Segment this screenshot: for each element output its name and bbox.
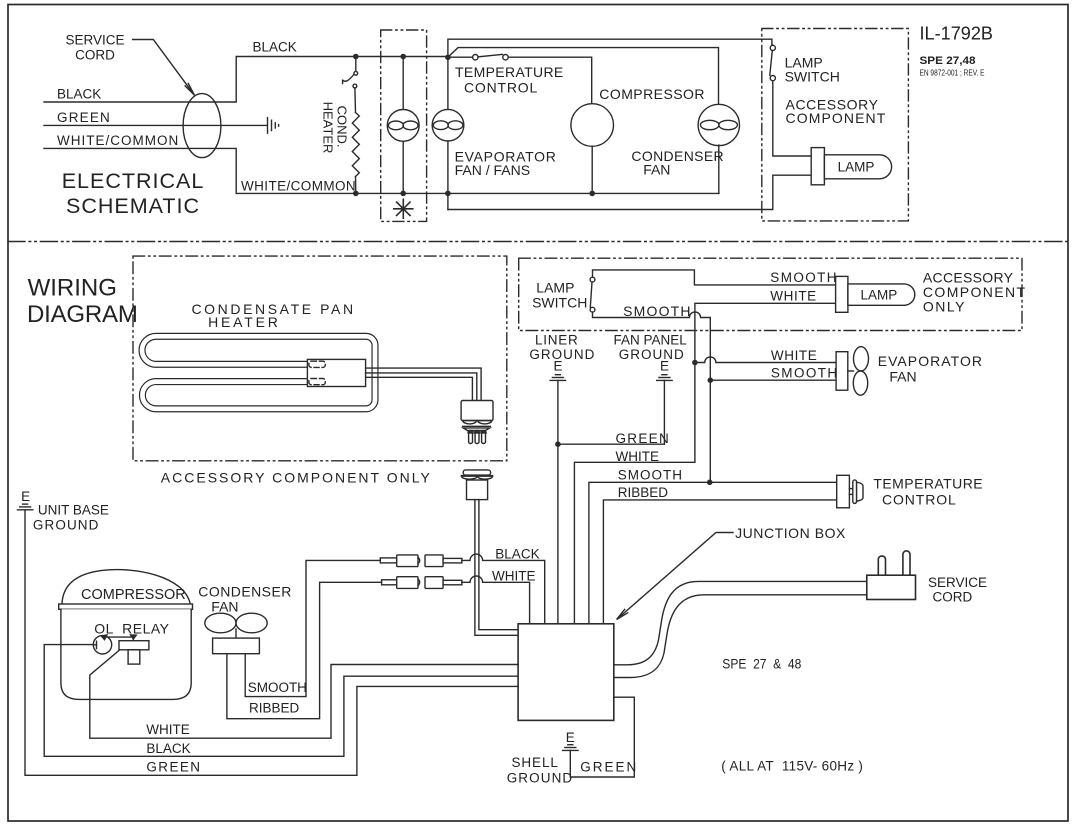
label SMOOTH (condenser lead) xyxy=(248,680,307,695)
svg-text:WHITE: WHITE xyxy=(492,569,536,584)
svg-text:GROUND: GROUND xyxy=(507,771,574,786)
svg-text:SMOOTH: SMOOTH xyxy=(248,680,307,695)
service cord grommet ellipse xyxy=(183,94,221,158)
overload protector OL xyxy=(93,636,111,654)
heater terminal dashed lugs xyxy=(309,361,325,385)
wire fan panel ground drop xyxy=(663,380,665,444)
wire heater cable (female connector to junction box) xyxy=(475,500,518,636)
svg-text:SERVICE: SERVICE xyxy=(928,575,987,590)
condenser fan (wiring) propeller xyxy=(205,613,267,638)
lamp switch (schematic) xyxy=(770,44,776,81)
svg-text:E: E xyxy=(21,489,30,504)
svg-text:WHITE: WHITE xyxy=(770,288,817,303)
service cord (wiring, curved pair) xyxy=(614,581,866,677)
wire shell ground (junction box to ground) xyxy=(570,697,634,777)
label RIBBED (condenser lead) xyxy=(249,701,300,716)
condensate pan heater element (serpentine tube) xyxy=(142,336,375,409)
svg-text:ACCESSORY COMPONENT ONLY: ACCESSORY COMPONENT ONLY xyxy=(161,470,432,486)
lamp (schematic) xyxy=(811,148,891,185)
svg-text:JUNCTION BOX: JUNCTION BOX xyxy=(735,525,846,541)
wire GREEN (left lead) xyxy=(44,124,267,126)
wire heater 3-conductor cable to plug xyxy=(366,368,482,400)
node: optional fan tap on BLACK wire xyxy=(401,54,405,58)
svg-text:ONLY: ONLY xyxy=(923,299,966,315)
label SMOOTH (lamp lead) xyxy=(770,270,838,285)
wire WHITE (relay to junction box) xyxy=(90,650,518,738)
svg-text:TEMPERATURE: TEMPERATURE xyxy=(455,64,564,80)
svg-text:E: E xyxy=(660,359,669,374)
wire WHITE/COMMON (left lead) xyxy=(44,148,719,193)
svg-text:GROUND: GROUND xyxy=(619,347,685,362)
svg-text:SHELL: SHELL xyxy=(512,755,559,770)
svg-text:SERVICE: SERVICE xyxy=(65,33,124,48)
asterisk footnote symbol xyxy=(394,199,413,218)
svg-text:WHITE/COMMON: WHITE/COMMON xyxy=(57,133,179,148)
svg-text:COND.: COND. xyxy=(335,106,350,148)
ground symbol unit base xyxy=(17,504,32,510)
svg-text:WHITE: WHITE xyxy=(771,348,818,363)
relay xyxy=(119,641,149,664)
svg-text:RIBBED: RIBBED xyxy=(249,701,300,716)
svg-text:WHITE: WHITE xyxy=(146,722,190,737)
svg-text:E: E xyxy=(553,359,562,374)
heater male plug xyxy=(461,401,493,444)
node: evaporator fan bottom junction xyxy=(446,191,450,195)
svg-text:GREEN: GREEN xyxy=(580,760,638,775)
label CONDENSATE PAN HEATER xyxy=(191,301,355,330)
svg-text:LINER: LINER xyxy=(535,333,579,348)
label SPE 27 & 48 xyxy=(722,657,801,672)
temperature control switch xyxy=(450,54,508,60)
svg-text:SWITCH: SWITCH xyxy=(785,69,840,85)
svg-text:CORD: CORD xyxy=(933,590,973,605)
svg-text:GREEN: GREEN xyxy=(57,110,111,125)
wire condenser fan to common xyxy=(718,145,720,193)
node: liner ground / green tee xyxy=(556,442,560,446)
svg-text:FAN / FANS: FAN / FANS xyxy=(455,162,530,178)
compressor motor symbol xyxy=(571,104,614,147)
condensate pan heater dash-dot box xyxy=(133,256,507,461)
label WIRING DIAGRAM xyxy=(27,275,138,329)
section divider dash-dot line xyxy=(8,241,1068,243)
wire condenser ribbed lead to terminal (hop to junction box) xyxy=(227,576,530,719)
svg-text:HEATER: HEATER xyxy=(208,314,281,330)
wire compressor branch xyxy=(508,57,592,103)
label WHITE (lamp lead) xyxy=(770,288,817,303)
svg-text:FAN PANEL: FAN PANEL xyxy=(614,333,688,348)
svg-text:GREEN: GREEN xyxy=(146,760,201,775)
svg-text:RIBBED: RIBBED xyxy=(618,485,669,500)
wire BLACK (left lead) xyxy=(44,57,448,103)
wire lamp white return (lamp to junction box) xyxy=(574,303,835,624)
svg-text:IL-1792B: IL-1792B xyxy=(920,23,994,44)
svg-text:CONDENSER: CONDENSER xyxy=(198,584,292,600)
svg-text:COMPRESSOR: COMPRESSOR xyxy=(599,86,705,102)
label LAMP SWITCH (wiring) xyxy=(532,280,587,311)
svg-text:CONTROL: CONTROL xyxy=(882,492,957,508)
svg-text:SMOOTH: SMOOTH xyxy=(623,303,692,319)
ground symbol fan panel xyxy=(657,375,672,381)
cond heater thermal cutout switch xyxy=(343,57,358,88)
wire lamp switch to lamp xyxy=(773,81,811,156)
wire GREEN (unit base ground to junction box) xyxy=(25,510,518,776)
label IL-1792B xyxy=(920,23,994,44)
svg-text:SPE 27,48: SPE 27,48 xyxy=(920,55,976,67)
condenser fan motor symbol xyxy=(698,104,739,145)
svg-text:SWITCH: SWITCH xyxy=(532,295,587,311)
svg-text:LAMP: LAMP xyxy=(861,288,898,303)
label LINER GROUND E xyxy=(529,333,595,374)
svg-text:GREEN: GREEN xyxy=(616,431,671,446)
wire condenser smooth lead to terminal (hop to junction box) xyxy=(245,554,545,696)
label BLACK (top wire) xyxy=(253,40,297,55)
wire evaporator fan smooth lead xyxy=(710,379,836,381)
wire RIBBED bus (junction box riser to temperature control) xyxy=(603,500,836,624)
svg-text:WHITE/COMMON: WHITE/COMMON xyxy=(241,179,356,194)
svg-text:FAN: FAN xyxy=(889,369,916,385)
svg-text:CONTROL: CONTROL xyxy=(464,80,538,96)
svg-text:COMPONENT: COMPONENT xyxy=(786,110,887,126)
node: cond heater bottom junction xyxy=(354,191,358,195)
heater female connector xyxy=(461,470,492,500)
wire optional fan branch xyxy=(402,57,404,194)
svg-text:TEMPERATURE: TEMPERATURE xyxy=(873,476,983,492)
label ( ALL AT 115V- 60Hz ) xyxy=(721,759,863,774)
node: BLACK feed junction xyxy=(446,55,450,59)
node: smooth bus tee xyxy=(708,480,712,484)
label JUNCTION BOX with leader arrow xyxy=(617,525,846,620)
compressor (wiring) shell xyxy=(59,570,193,700)
ground symbol shell xyxy=(563,745,578,751)
svg-text:WHITE: WHITE xyxy=(616,449,660,464)
wire compressor to common xyxy=(591,146,593,193)
node: optional fan bottom junction xyxy=(401,191,405,195)
label SPE 27,48 xyxy=(920,55,976,67)
node: cond heater tap on BLACK wire xyxy=(354,54,358,58)
evaporator fan (wiring) xyxy=(836,347,868,396)
resistor COND. HEATER xyxy=(352,88,359,193)
label FAN PANEL GROUND E xyxy=(614,333,688,374)
svg-text:LAMP: LAMP xyxy=(838,160,875,175)
temperature control (wiring) xyxy=(837,475,863,508)
condenser fan motor block xyxy=(213,638,260,654)
label WHITE/COMMON (bottom wire) xyxy=(241,179,356,194)
svg-text:ELECTRICAL: ELECTRICAL xyxy=(62,169,205,193)
svg-text:EVAPORATOR: EVAPORATOR xyxy=(878,353,983,369)
wire condenser-fan rail (diagonal riser) xyxy=(448,48,719,104)
svg-text:SMOOTH: SMOOTH xyxy=(771,366,839,381)
label OL RELAY xyxy=(94,621,169,637)
svg-text:BLACK: BLACK xyxy=(495,547,539,562)
quick-connect terminals pair WHITE row xyxy=(382,577,462,589)
svg-text:( ALL AT 115V- 60Hz ): ( ALL AT 115V- 60Hz ) xyxy=(721,759,863,774)
lamp switch (wiring) xyxy=(590,277,595,312)
svg-text:SMOOTH: SMOOTH xyxy=(618,467,683,482)
node: compressor bottom junction xyxy=(590,191,594,195)
svg-text:E: E xyxy=(566,730,575,745)
svg-text:SPE 27 & 48: SPE 27 & 48 xyxy=(722,657,801,672)
svg-text:WIRING: WIRING xyxy=(28,275,117,302)
svg-text:BLACK: BLACK xyxy=(253,40,297,55)
service cord plug xyxy=(867,551,916,600)
optional evaporator fan motor symbol xyxy=(387,110,419,142)
accessory component only dash-dot box (lamp circuit) xyxy=(519,258,1022,330)
label ACCESSORY COMPONENT ONLY (pan heater) xyxy=(161,470,432,486)
ground symbol liner xyxy=(550,375,565,381)
wire liner ground to junction box xyxy=(557,380,559,623)
wire SMOOTH bus (junction box riser to temperature control) xyxy=(589,482,837,624)
svg-text:HEATER: HEATER xyxy=(321,102,336,154)
wire main circuit loop (top rail, left rail, bottom rail) xyxy=(448,39,811,209)
label SERVICE CORD with leader arrow xyxy=(65,33,194,96)
wire GREEN (grounds to junction box) xyxy=(558,443,665,445)
wire WHITE bus label xyxy=(616,449,660,464)
heater terminal block xyxy=(307,359,365,386)
label E UNIT BASE GROUND xyxy=(21,489,109,533)
label EN 9872-001 ; REV. E xyxy=(920,68,985,78)
svg-text:LAMP: LAMP xyxy=(536,280,574,296)
svg-text:BLACK: BLACK xyxy=(146,741,190,756)
evaporator fan motor symbol xyxy=(432,109,464,141)
node: smooth wire to evaporator fan tap xyxy=(708,378,712,382)
svg-text:CORD: CORD xyxy=(75,48,115,63)
wire evaporator fan white lead (hop) xyxy=(695,357,836,363)
svg-text:FAN: FAN xyxy=(643,162,670,178)
svg-text:GROUND: GROUND xyxy=(33,517,100,532)
optional evaporator fan dash-dot box xyxy=(381,30,427,221)
label SHELL GROUND xyxy=(507,755,574,786)
wire BLACK (OL to junction box) xyxy=(44,645,518,757)
label GREEN (shell ground wire) xyxy=(580,760,638,775)
svg-text:FAN: FAN xyxy=(211,599,238,615)
lamp (wiring) xyxy=(836,276,915,312)
svg-text:OL RELAY: OL RELAY xyxy=(94,621,169,637)
svg-text:SMOOTH: SMOOTH xyxy=(770,270,838,285)
node: white wire to evaporator fan tap xyxy=(693,360,697,364)
label ACCESSORY COMPONENT ONLY (lamp) xyxy=(923,270,1027,315)
svg-text:EN 9872-001 ; REV. E: EN 9872-001 ; REV. E xyxy=(920,68,985,78)
label COND. HEATER (rotated) xyxy=(321,102,350,154)
label ELECTRICAL SCHEMATIC xyxy=(62,169,205,218)
svg-text:SCHEMATIC: SCHEMATIC xyxy=(66,194,200,218)
svg-text:COMPRESSOR: COMPRESSOR xyxy=(81,587,186,603)
quick-connect terminals pair BLACK row xyxy=(380,555,462,567)
OL to relay link xyxy=(101,635,136,641)
accessory component dash-dot box (schematic) xyxy=(762,29,909,221)
svg-text:DIAGRAM: DIAGRAM xyxy=(27,301,138,328)
junction box xyxy=(518,624,614,721)
svg-text:UNIT BASE: UNIT BASE xyxy=(38,502,109,517)
label ACCESSORY COMPONENT (schematic) xyxy=(786,97,887,127)
svg-text:BLACK: BLACK xyxy=(57,87,101,102)
ground symbol (service cord green, sideways) xyxy=(268,118,279,134)
wire lamp switch smooth (to lamp and junction box riser) xyxy=(593,270,836,482)
